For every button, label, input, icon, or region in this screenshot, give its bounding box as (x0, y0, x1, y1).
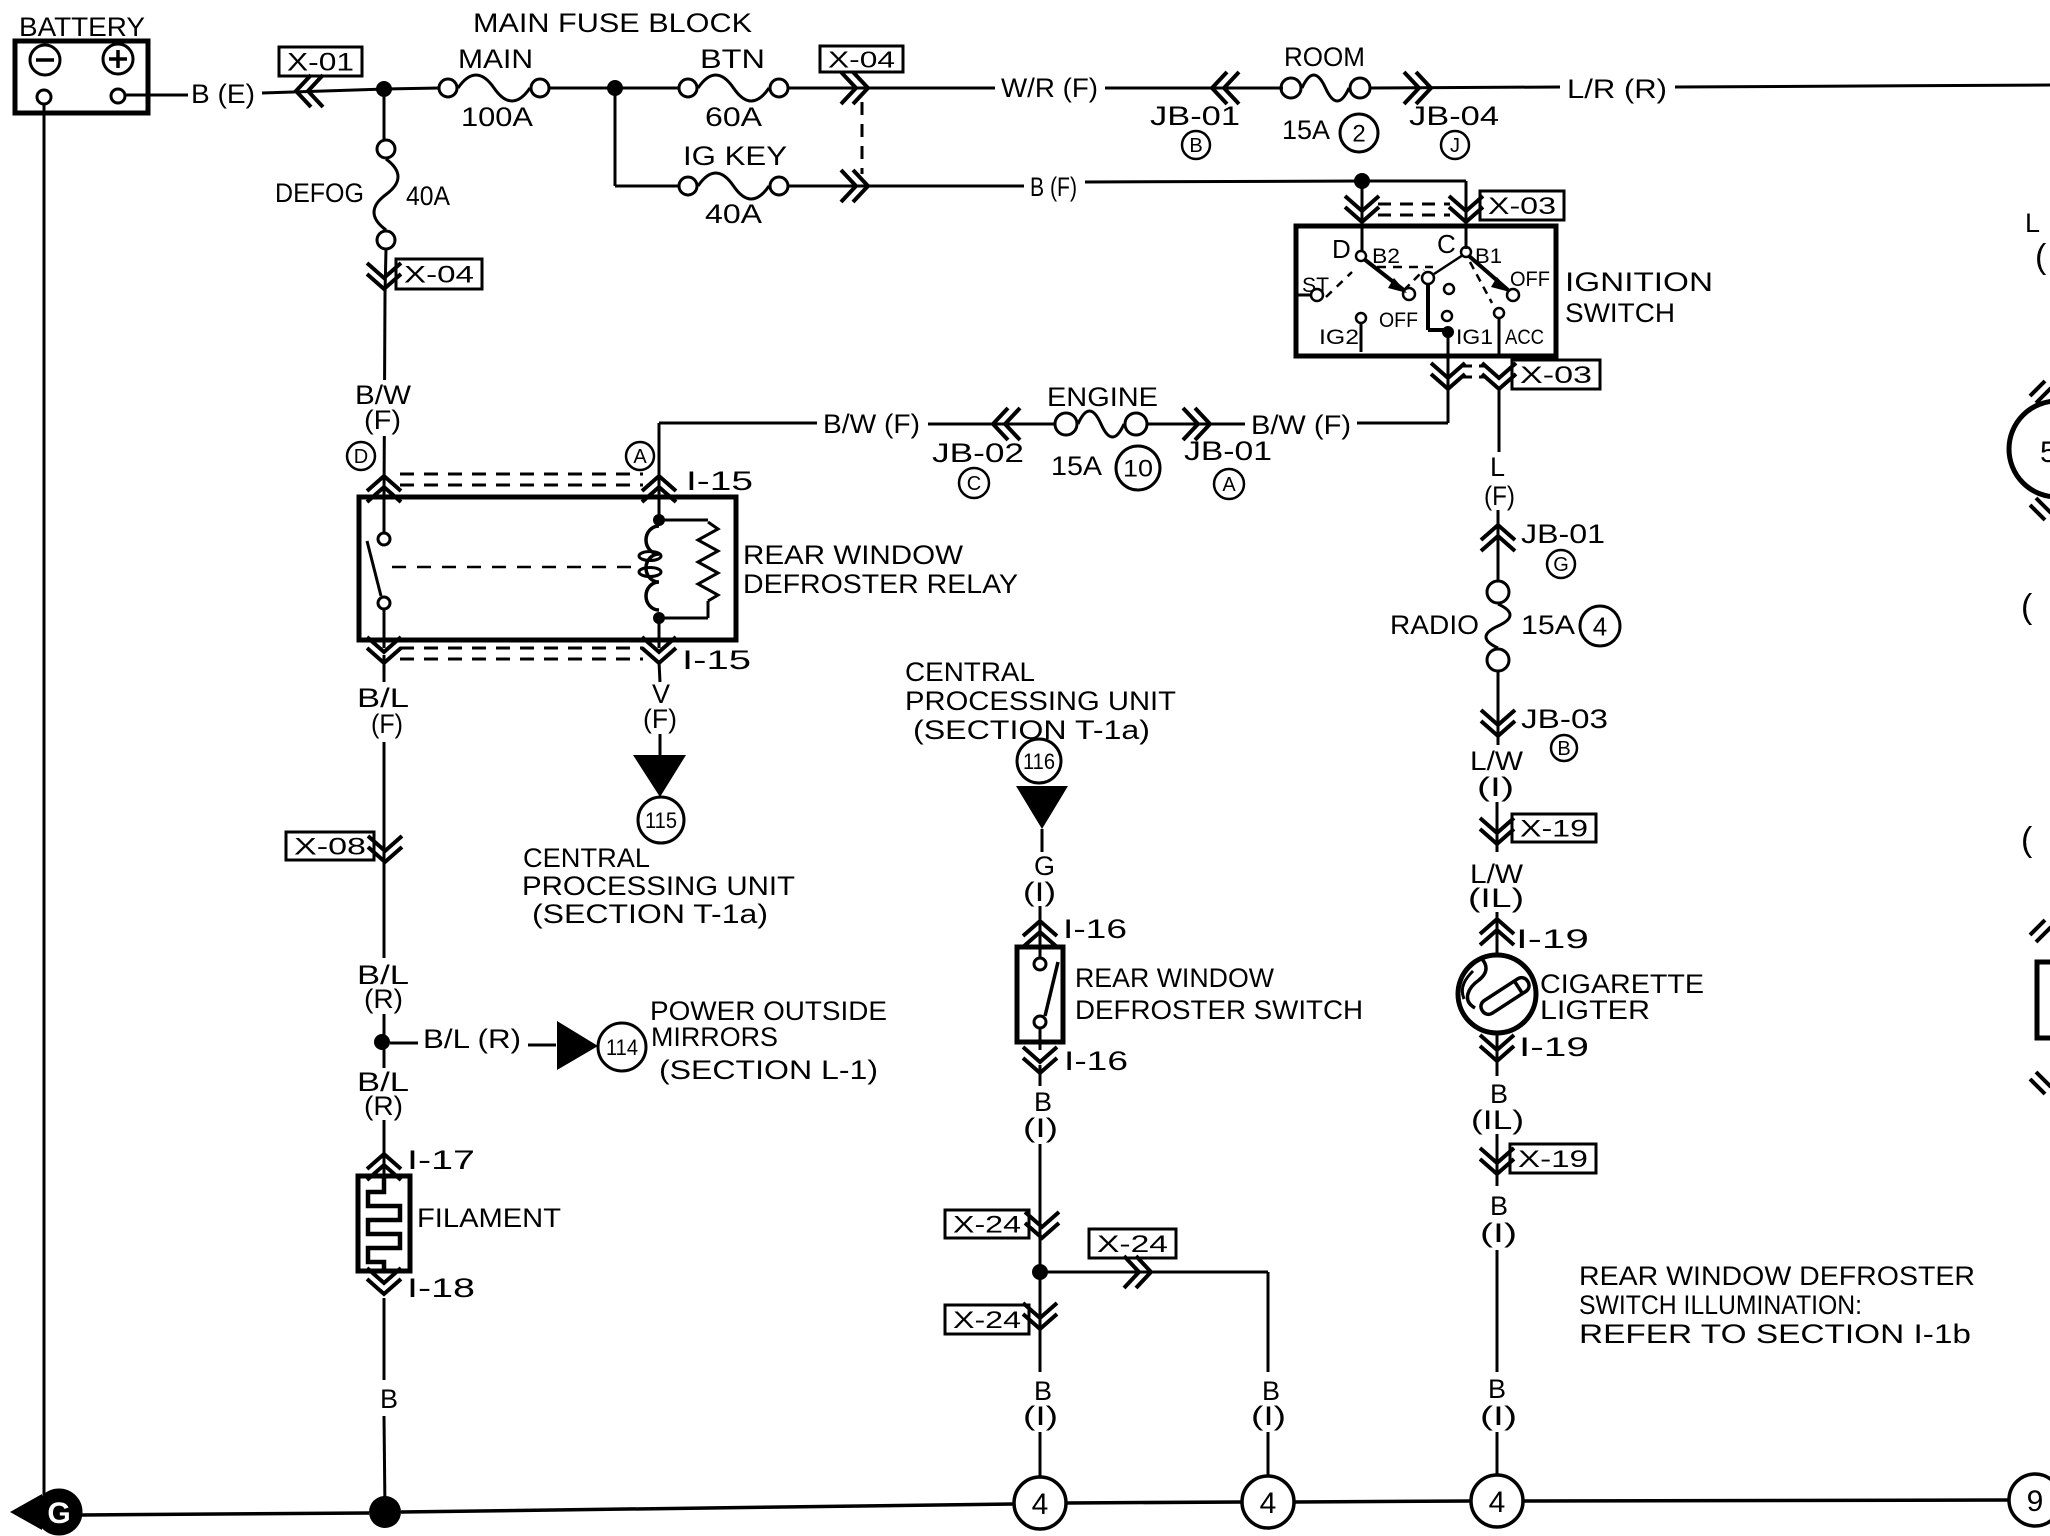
right edge connector arrows (2036, 388, 2050, 403)
svg-text:J: J (1450, 135, 1460, 157)
junction X-24 (1032, 1264, 1048, 1280)
filament element (358, 1176, 410, 1271)
ground bus (82, 1513, 369, 1515)
arrow to CPU 115 (633, 755, 686, 797)
svg-text:(SECTION T-1a): (SECTION T-1a) (532, 899, 768, 929)
svg-text:(F): (F) (643, 704, 677, 734)
connector X-19 box upper (1512, 814, 1596, 842)
svg-text:(F): (F) (364, 405, 401, 435)
svg-text:JB-03: JB-03 (1521, 704, 1608, 734)
fuse MAIN 100A (439, 79, 457, 97)
svg-text:X-03: X-03 (1520, 362, 1592, 389)
svg-text:ENGINE: ENGINE (1047, 382, 1158, 412)
svg-text:40A: 40A (406, 181, 450, 211)
svg-text:OFF: OFF (1379, 309, 1418, 332)
svg-text:C: C (1437, 229, 1456, 259)
arrow to node 114 (557, 1021, 598, 1070)
terminal IG2 (1356, 313, 1366, 323)
connector 4 left (1014, 1477, 1066, 1529)
svg-text:JB-01: JB-01 (1521, 519, 1605, 549)
svg-text:X-04: X-04 (404, 262, 474, 289)
svg-text:JB-01: JB-01 (1184, 436, 1272, 466)
svg-text:(: ( (2021, 821, 2033, 859)
svg-text:G: G (1553, 554, 1569, 576)
svg-text:REAR WINDOW: REAR WINDOW (1075, 963, 1275, 993)
connector X-03 arrows bottom with dashes (1431, 363, 1465, 378)
connector X-08 arrow (368, 836, 402, 851)
dashed contact positions left rotary (1326, 272, 1352, 297)
svg-text:PROCESSING UNIT: PROCESSING UNIT (522, 871, 795, 901)
svg-text:B: B (1490, 1191, 1508, 1221)
svg-text:9: 9 (2027, 1485, 2044, 1518)
wire to connector 4 left (1039, 1272, 1042, 1372)
svg-text:X-24: X-24 (953, 1307, 1021, 1334)
wire X-04 to relay (384, 294, 385, 497)
svg-text:4: 4 (1593, 611, 1607, 641)
ground bus segment (1066, 1502, 1242, 1503)
relay switch contact (383, 497, 386, 533)
connector I-16 arrow top (1023, 932, 1057, 947)
svg-text:B/W (F): B/W (F) (1251, 410, 1351, 440)
wire to power outside mirrors (390, 1042, 418, 1045)
wire B (F) to ignition switch (1085, 181, 1362, 182)
wire BTN fuse to W/R (F) (788, 87, 995, 90)
svg-text:4: 4 (1260, 1487, 1277, 1520)
right edge connector arrow 3 (2036, 927, 2050, 942)
svg-text:REFER TO SECTION I-1b: REFER TO SECTION I-1b (1579, 1319, 1971, 1349)
svg-text:A: A (1222, 474, 1236, 496)
svg-text:ACC: ACC (1505, 326, 1544, 349)
svg-text:(SECTION L-1): (SECTION L-1) (659, 1055, 878, 1085)
svg-text:C: C (967, 473, 981, 495)
contact arm B2 to OFF (1364, 259, 1405, 291)
svg-text:L/R (R): L/R (R) (1567, 74, 1667, 104)
wire RADIO fuse to JB-03 (1497, 670, 1500, 745)
junction box D (347, 442, 375, 470)
connector X-24 box lower (945, 1305, 1029, 1334)
connector I-15 arrows top with dashes (367, 487, 401, 502)
connector I-17 arrow (367, 1165, 401, 1180)
terminal B2 (1356, 251, 1366, 261)
connector X-08 box (286, 832, 374, 860)
svg-text:L: L (2025, 208, 2040, 238)
svg-text:B2: B2 (1372, 245, 1400, 268)
svg-text:(I): (I) (1477, 772, 1514, 802)
svg-text:W/R (F): W/R (F) (1001, 73, 1098, 103)
svg-text:FILAMENT: FILAMENT (417, 1203, 561, 1233)
relay dashed actuator line (392, 566, 632, 569)
terminal ACC (1494, 308, 1504, 318)
svg-text:B: B (1488, 1374, 1506, 1404)
wire label B/W (F) left column (352, 380, 414, 436)
svg-text:2: 2 (1352, 121, 1365, 148)
wire W/R (F) to ROOM fuse (1105, 87, 1283, 90)
junction BTN / IG KEY (607, 80, 623, 96)
junction B/L (R) to mirrors (383, 1014, 386, 1068)
svg-text:(IL): (IL) (1468, 883, 1524, 913)
svg-text:A: A (633, 446, 647, 468)
connector I-16 arrow bottom (1039, 1042, 1042, 1050)
svg-text:B (E): B (E) (191, 79, 255, 109)
svg-text:(: ( (2035, 238, 2047, 276)
ignition switch box (1296, 226, 1556, 356)
svg-text:D: D (354, 446, 368, 468)
wire IG KEY fuse to B (F) (788, 185, 1024, 188)
connector I-19 arrow top (1480, 930, 1514, 945)
svg-text:LIGTER: LIGTER (1540, 995, 1650, 1025)
svg-text:I-19: I-19 (1519, 1032, 1589, 1062)
connector JB-01 arrow right column (1481, 536, 1515, 551)
svg-text:I-19: I-19 (1516, 924, 1589, 954)
connector I-19 arrow bottom (1496, 1031, 1499, 1076)
connector 9 (2009, 1474, 2050, 1526)
connector X-01 box (279, 47, 362, 76)
battery (15, 41, 148, 113)
junction main bus (376, 81, 392, 97)
wire IG1 down (1447, 332, 1450, 356)
svg-text:B: B (1189, 135, 1202, 157)
contact arm B1 to OFF (1469, 256, 1508, 290)
junction box A (626, 442, 654, 470)
svg-text:B (F): B (F) (1030, 172, 1077, 202)
svg-text:SWITCH ILLUMINATION:: SWITCH ILLUMINATION: (1579, 1290, 1862, 1320)
svg-text:B: B (1557, 738, 1570, 760)
svg-text:CENTRAL: CENTRAL (905, 657, 1035, 687)
svg-text:I-18: I-18 (407, 1273, 475, 1303)
svg-text:L: L (1490, 452, 1505, 482)
wire branch down to connector 4 (1267, 1272, 1270, 1372)
wire ACC down (1498, 318, 1501, 356)
terminal B1 (1461, 247, 1471, 257)
cigarette lighter (1458, 955, 1536, 1033)
svg-text:114: 114 (606, 1035, 638, 1060)
svg-text:BATTERY: BATTERY (19, 12, 145, 42)
svg-text:I-15: I-15 (682, 645, 751, 675)
svg-text:(I): (I) (1023, 1113, 1058, 1143)
connector 4 middle (1242, 1476, 1294, 1528)
svg-text:15A: 15A (1282, 115, 1330, 145)
svg-text:60A: 60A (705, 102, 762, 132)
svg-text:MAIN FUSE BLOCK: MAIN FUSE BLOCK (473, 8, 752, 38)
svg-text:I-16: I-16 (1064, 1046, 1128, 1076)
wire relay output V (F) (659, 662, 660, 682)
connector X-24 box upper (945, 1210, 1029, 1238)
connector 4 right (1471, 1475, 1523, 1527)
wire coil top into box (658, 497, 661, 520)
connector X-04 arrows with link (841, 72, 856, 104)
svg-text:RADIO: RADIO (1390, 610, 1479, 640)
fuse ENGINE 15A (1055, 413, 1077, 435)
svg-text:ROOM: ROOM (1284, 42, 1365, 72)
svg-text:(F): (F) (371, 709, 403, 739)
svg-text:B/W (F): B/W (F) (823, 409, 920, 439)
connector X-01 arrow (308, 75, 323, 107)
wire switch to X-24 junction (1039, 1144, 1042, 1272)
wire ACC to L (F) (1498, 389, 1501, 452)
svg-text:CENTRAL: CENTRAL (523, 843, 650, 873)
svg-text:(: ( (2021, 588, 2033, 626)
svg-text:(I): (I) (1023, 1401, 1058, 1431)
wire junction to MAIN fuse (384, 88, 440, 89)
wire junction to B2 terminal (1361, 181, 1364, 252)
rear window defroster switch box (1017, 947, 1063, 1042)
svg-text:OFF: OFF (1510, 268, 1550, 291)
svg-text:D: D (1332, 234, 1351, 264)
svg-text:10: 10 (1123, 456, 1153, 483)
wire filament to ground bus (383, 1298, 386, 1380)
arrow from CPU 116 (1016, 786, 1068, 829)
wire engine fuse to JB-01 (1148, 423, 1245, 426)
wire ROOM fuse to L/R (R) (1370, 87, 1560, 88)
svg-text:100A: 100A (461, 102, 533, 132)
svg-text:B: B (380, 1384, 398, 1414)
svg-text:IGNITION: IGNITION (1565, 267, 1713, 297)
wire to filament (383, 1120, 386, 1176)
connector X-03 box top (1480, 191, 1564, 220)
connector X-24 arrow lower (1023, 1303, 1057, 1318)
svg-text:X-19: X-19 (1520, 816, 1588, 843)
connector X-03 arrows top with dashes (1345, 196, 1379, 211)
node 116 (1017, 739, 1061, 783)
wire B/W (F) to ignition IG1 (1357, 422, 1448, 425)
right edge cut-off box (2037, 962, 2050, 1038)
rotary contacts C (1434, 255, 1463, 274)
fuse DEFOG 40A branch (383, 97, 386, 141)
svg-text:(I): (I) (1480, 1401, 1517, 1431)
svg-text:I-16: I-16 (1063, 914, 1127, 944)
connector X-24 arrow on branch (1124, 1256, 1139, 1288)
connector X-19 arrow lower (1480, 1148, 1514, 1163)
svg-text:JB-04: JB-04 (1409, 101, 1499, 131)
node 115 (638, 797, 684, 843)
ground symbol G (10, 1494, 42, 1530)
connector JB-02 arrow (1005, 408, 1020, 440)
svg-text:15A: 15A (1521, 610, 1575, 640)
right edge connector arrow 4 (2036, 1072, 2050, 1087)
svg-text:SWITCH: SWITCH (1565, 298, 1675, 328)
svg-text:4: 4 (1032, 1488, 1049, 1521)
connector I-15 arrows bottom with dashes (383, 640, 386, 648)
svg-text:I-15: I-15 (686, 466, 753, 496)
wire B (E) to junction (262, 89, 384, 93)
svg-text:PROCESSING UNIT: PROCESSING UNIT (905, 686, 1176, 716)
fuse IG KEY 40A (679, 177, 697, 195)
right edge node 5 (2009, 401, 2050, 497)
svg-text:(R): (R) (364, 984, 403, 1014)
svg-text:(R): (R) (364, 1091, 403, 1121)
connector I-18 arrow (367, 1268, 401, 1283)
svg-text:MAIN: MAIN (458, 44, 533, 74)
wire DEFOG fuse to X-04 (385, 249, 386, 294)
wire battery positive to B (E) (126, 94, 188, 97)
svg-text:X-19: X-19 (1518, 1146, 1588, 1173)
relay resistor (659, 519, 708, 522)
svg-text:BTN: BTN (700, 44, 765, 74)
wire down to connector 4 right (1496, 1250, 1499, 1372)
svg-text:B/L (R): B/L (R) (423, 1024, 521, 1054)
svg-text:(I): (I) (1480, 1218, 1517, 1248)
ground bus segment (1294, 1501, 1471, 1502)
connector X-04 box (defog) (396, 259, 482, 289)
svg-text:G: G (47, 1497, 70, 1530)
wire coil bottom out of box (658, 618, 661, 640)
wire branch down to IG KEY fuse (614, 88, 617, 186)
node 114 (598, 1023, 646, 1071)
svg-text:(I): (I) (1023, 877, 1056, 907)
svg-text:DEFROSTER SWITCH: DEFROSTER SWITCH (1075, 995, 1363, 1025)
svg-text:X-01: X-01 (287, 49, 354, 77)
relay box rear window defroster relay (359, 497, 736, 640)
relay coil feed wire up and right B/W (F) (658, 423, 661, 497)
wire C contact to IG1 (1426, 284, 1430, 330)
svg-text:116: 116 (1023, 749, 1055, 774)
connector X-24 box on branch (1089, 1229, 1176, 1258)
svg-text:4: 4 (1489, 1486, 1506, 1519)
wire MAIN fuse to BTN branch (549, 87, 680, 90)
svg-text:5: 5 (2040, 436, 2050, 469)
wire to B1 terminal (1465, 181, 1468, 249)
svg-text:X-08: X-08 (294, 834, 366, 861)
wire 116 to defroster switch G (I) (1041, 829, 1044, 852)
svg-text:X-24: X-24 (1097, 1231, 1168, 1258)
connector X-03 box bottom (1512, 360, 1600, 389)
connector X-19 arrow upper (1480, 818, 1514, 833)
connector JB-01 arrow (engine) (1183, 408, 1198, 440)
fuse BTN 60A (679, 79, 697, 97)
connector X-04 arrow (defog) (367, 263, 401, 278)
svg-text:40A: 40A (705, 199, 762, 229)
fuse ROOM 15A (1281, 78, 1301, 98)
connector X-04 box top (820, 46, 903, 72)
junction B (F) at ignition switch (1354, 173, 1370, 189)
connector JB-01 arrow (1224, 72, 1239, 104)
svg-text:115: 115 (645, 808, 677, 833)
svg-text:X-24: X-24 (953, 1212, 1021, 1239)
svg-text:15A: 15A (1051, 451, 1102, 481)
svg-text:REAR WINDOW DEFROSTER: REAR WINDOW DEFROSTER (1579, 1261, 1975, 1291)
svg-text:DEFROSTER RELAY: DEFROSTER RELAY (743, 569, 1018, 599)
relay coil (653, 514, 665, 526)
svg-text:JB-02: JB-02 (932, 438, 1024, 468)
svg-text:DEFOG: DEFOG (275, 178, 364, 208)
svg-text:JB-01: JB-01 (1150, 101, 1240, 131)
svg-text:IG KEY: IG KEY (683, 141, 787, 171)
connector JB-04 arrow (1404, 72, 1419, 104)
junction ground bus (369, 1496, 401, 1528)
defroster switch contacts (1034, 958, 1046, 970)
connector X-24 arrow upper (1025, 1212, 1059, 1227)
wire battery negative to ground (43, 104, 46, 1496)
wire to X-19 lower (1496, 1134, 1499, 1186)
svg-text:IG2: IG2 (1319, 326, 1359, 349)
svg-text:MIRRORS: MIRRORS (651, 1022, 778, 1052)
svg-text:IG1: IG1 (1456, 326, 1493, 349)
svg-text:REAR WINDOW: REAR WINDOW (743, 540, 964, 570)
fuse RADIO 15A (1487, 581, 1509, 603)
svg-text:I-17: I-17 (407, 1145, 475, 1175)
connector JB-03 arrow (1481, 710, 1515, 725)
svg-text:(I): (I) (1251, 1401, 1286, 1431)
connector X-19 box lower (1510, 1144, 1596, 1173)
ground bus segment (1523, 1500, 2009, 1501)
svg-text:X-04: X-04 (828, 46, 895, 72)
wire L/R (R) to right edge (1675, 85, 2050, 87)
svg-text:(F): (F) (1484, 481, 1515, 511)
wire X-24 branch right (1040, 1271, 1268, 1274)
svg-text:(IL): (IL) (1471, 1105, 1524, 1135)
svg-text:X-03: X-03 (1488, 193, 1556, 220)
